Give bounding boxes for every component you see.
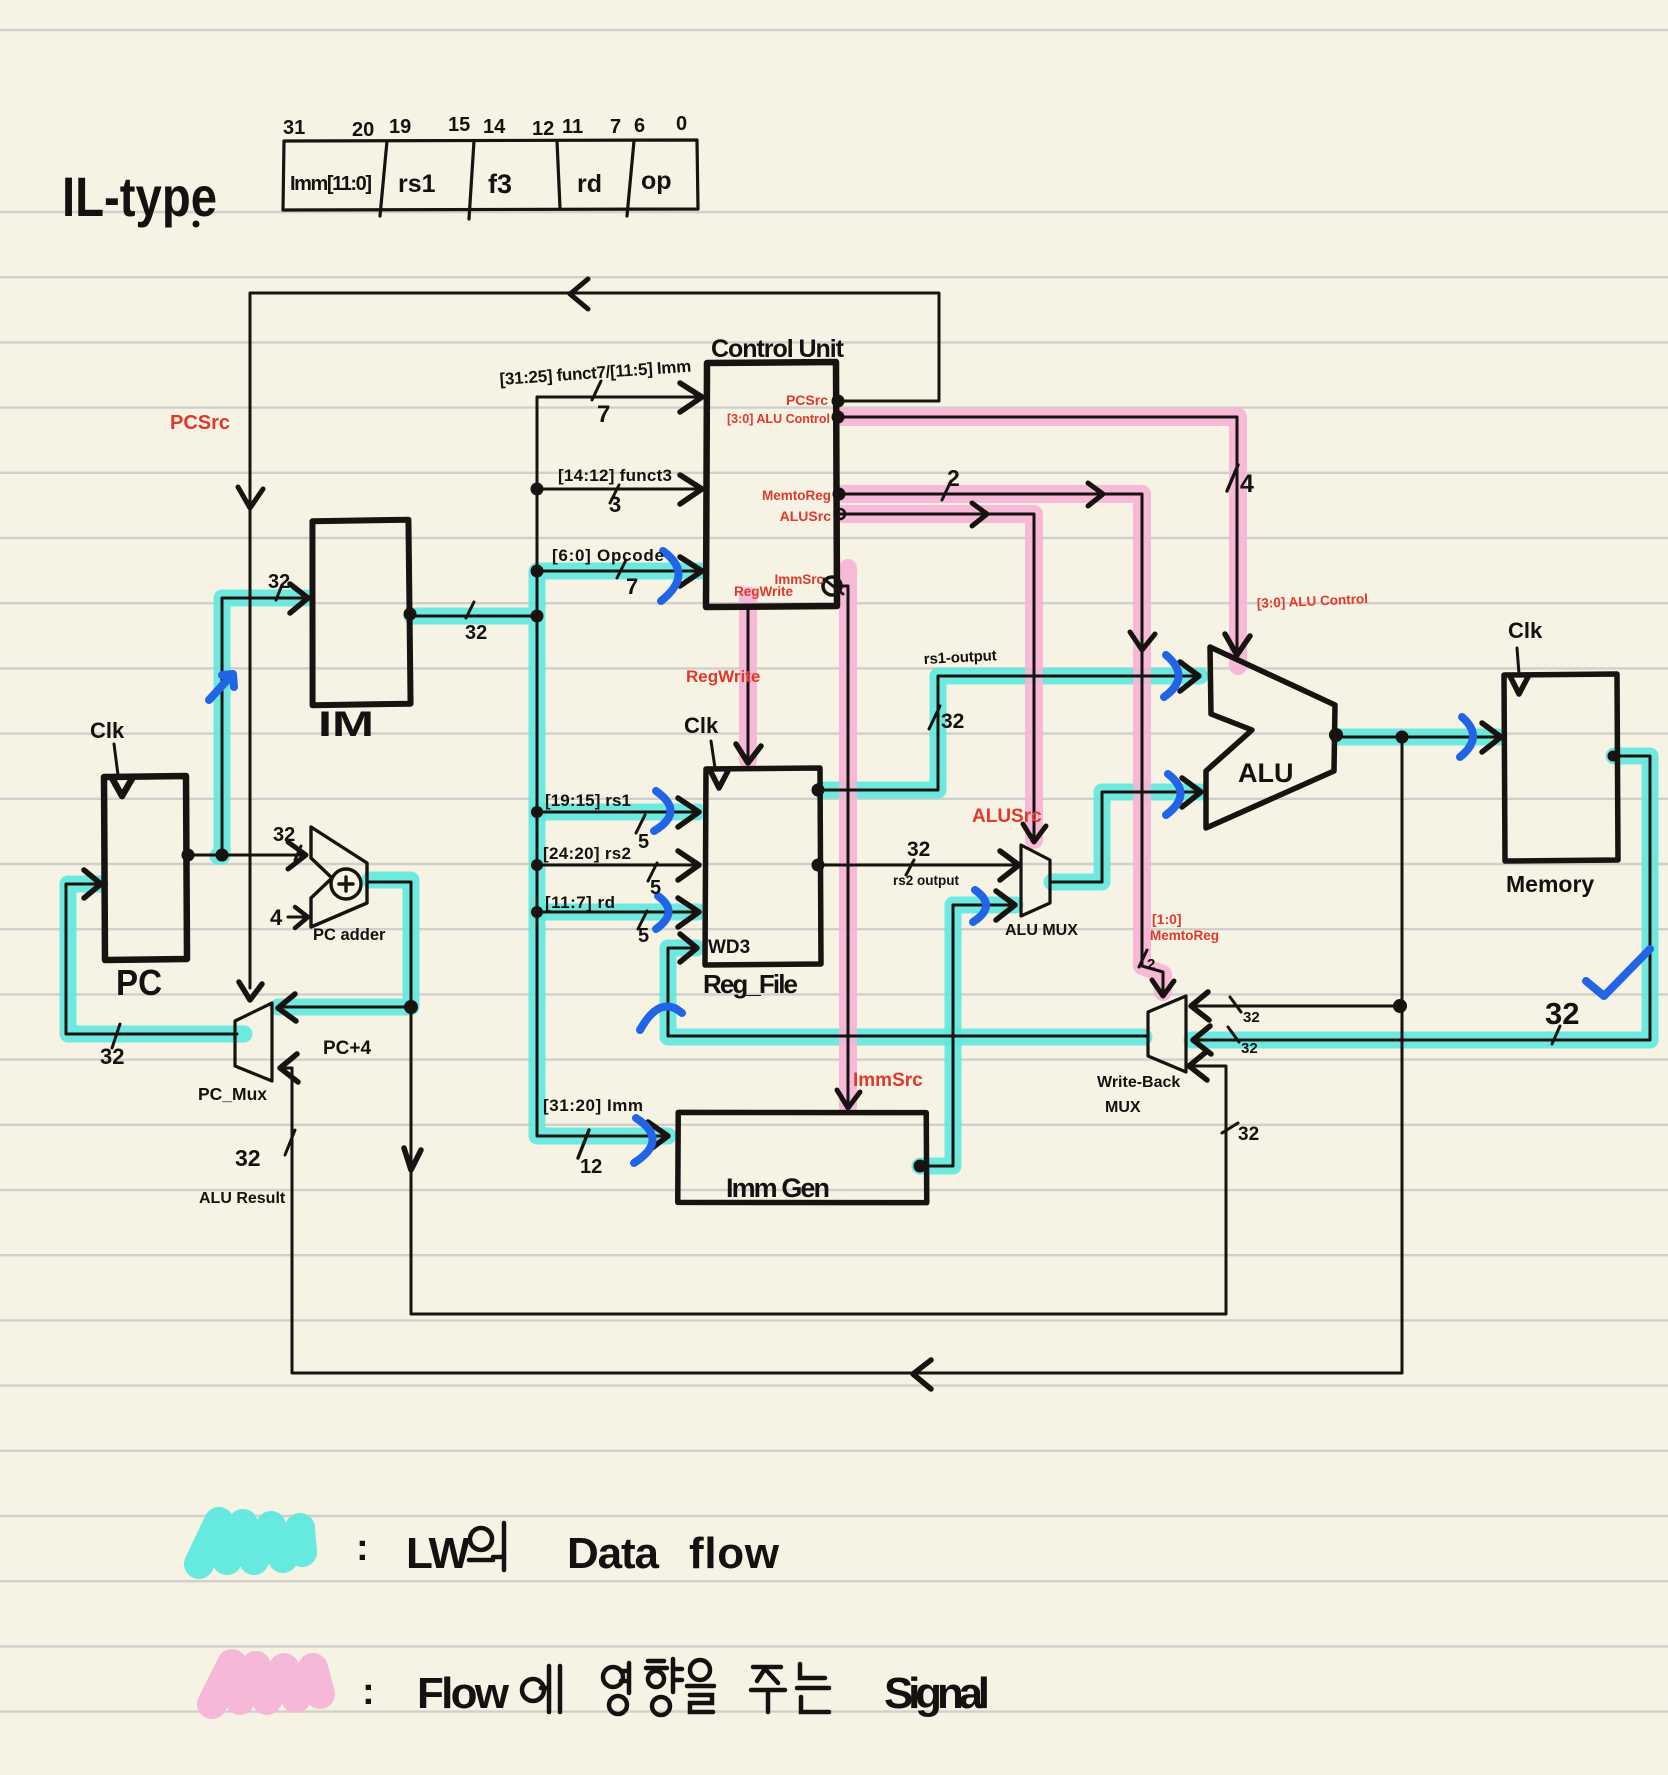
register file Reg_File — [705, 768, 821, 965]
slash 4 on ALU Control wire — [1227, 465, 1238, 491]
svg-text:14: 14 — [483, 116, 506, 138]
wire ALU output to Memory — [1329, 723, 1501, 752]
slash 3 on funct3 wire — [610, 485, 619, 503]
svg-text:6: 6 — [634, 115, 645, 137]
highlight cyan: LW data flow, PC adder PC+4 to PC_Mux — [278, 880, 411, 1007]
svg-text:PC_Mux: PC_Mux — [198, 1084, 267, 1104]
wire PC adder output to PC_Mux PC+4 input — [278, 882, 418, 1021]
svg-text:32: 32 — [1545, 996, 1579, 1031]
highlight cyan: LW data flow, Imm Gen output to ALU MUX lower input — [920, 905, 1015, 1166]
svg-text:LW: LW — [406, 1529, 470, 1578]
svg-text:rd: rd — [577, 170, 602, 198]
svg-text:Clk: Clk — [1508, 618, 1543, 643]
svg-text::: : — [362, 1671, 375, 1713]
svg-text:3: 3 — [609, 492, 621, 517]
svg-text:[6:0] Opcode: [6:0] Opcode — [552, 546, 664, 565]
svg-text:32: 32 — [465, 622, 487, 644]
svg-text:7: 7 — [610, 116, 621, 138]
svg-text:5: 5 — [650, 877, 661, 899]
wire ALUSrc: control unit to ALU_MUX select — [835, 503, 1046, 842]
svg-text:Imm Gen: Imm Gen — [726, 1173, 830, 1203]
wire ALU result loop to PC_Mux lower input — [280, 731, 1409, 1390]
wire ImmSrc: control unit to Imm Gen select — [823, 577, 860, 1108]
svg-text:Control Unit: Control Unit — [711, 335, 845, 363]
highlight cyan: LW data flow, PC output up to IM address input — [218, 598, 306, 856]
wire IM output to instruction bus — [404, 608, 544, 623]
slash 32 on Write-Back MUX middle input — [1228, 1027, 1239, 1042]
svg-text:WD3: WD3 — [708, 937, 750, 958]
svg-text:7: 7 — [597, 401, 610, 428]
highlight cyan: LW data flow, rd field tap to Reg_File — [537, 904, 698, 921]
svg-text:Data: Data — [567, 1529, 660, 1578]
highlight cyan: LW data flow, Memory read data to Write-Back MUX — [1192, 756, 1650, 1040]
svg-text:ALU: ALU — [1238, 758, 1294, 788]
blue chevron on ALU output at Memory — [1460, 717, 1473, 757]
svg-text:32: 32 — [1243, 1009, 1260, 1026]
svg-text:32: 32 — [907, 838, 930, 861]
slash 32 on IM output wire — [466, 602, 474, 618]
svg-text:PCSrc: PCSrc — [170, 412, 230, 434]
svg-text:IM: IM — [318, 705, 374, 744]
wire imm field to Imm Gen — [537, 1122, 668, 1151]
svg-text:5: 5 — [638, 925, 649, 947]
wire PC+4 drop to Write-Back MUX input — [404, 1007, 1226, 1314]
instruction format box IL-type — [283, 140, 698, 219]
svg-text:12: 12 — [580, 1156, 602, 1178]
wire funct3 tap to control unit — [531, 475, 703, 504]
svg-text:11: 11 — [562, 116, 583, 138]
highlight pink: RegWrite signal to Reg_File — [739, 596, 757, 760]
wire MemtoReg: control unit to Write-Back MUX select — [833, 483, 1175, 996]
register PC — [104, 776, 187, 960]
blue arrow on PC to IM riser — [209, 674, 234, 700]
svg-text:ALU Result: ALU Result — [199, 1190, 286, 1207]
wire funct7 tap to control unit — [537, 383, 702, 412]
legend swatch: pink marker scribble — [212, 1664, 320, 1704]
svg-text:ALUSrc: ALUSrc — [780, 508, 832, 524]
wire rs2 output to ALU_MUX upper input — [812, 851, 1020, 880]
svg-text:Signal: Signal — [884, 1669, 990, 1718]
label 32 ALU Result (bottom left) — [285, 1130, 295, 1155]
svg-text:[19:15] rs1: [19:15] rs1 — [545, 791, 631, 810]
wire ALU_MUX output to ALU lower input — [1050, 778, 1201, 882]
wire instruction bus vertical — [536, 397, 539, 1136]
blue chevron on imm wire — [634, 1118, 653, 1163]
svg-text:rs1: rs1 — [398, 170, 436, 198]
svg-text:MUX: MUX — [1105, 1099, 1141, 1116]
clock tick Memory — [1517, 648, 1519, 674]
highlight pink: ImmSrc signal to Imm Gen — [839, 568, 857, 1106]
svg-text:32: 32 — [268, 571, 290, 593]
svg-text:PC+4: PC+4 — [323, 1038, 371, 1059]
slash 5 on rs2 wire — [648, 863, 657, 881]
svg-text:20: 20 — [352, 119, 374, 141]
svg-text:32: 32 — [1238, 1124, 1259, 1145]
svg-text:ALUSrc: ALUSrc — [972, 806, 1042, 827]
wire opcode tap to control unit — [531, 557, 703, 586]
svg-text:Imm[11:0]: Imm[11:0] — [290, 173, 372, 195]
svg-text:[24:20] rs2: [24:20] rs2 — [543, 844, 631, 863]
highlight cyan: LW data flow, PC_Mux output to PC input — [68, 884, 244, 1034]
svg-text:Clk: Clk — [90, 718, 125, 743]
svg-text:[11:7] rd: [11:7] rd — [545, 893, 615, 912]
korean glyph ui — [469, 1523, 504, 1570]
blue chevron on rs1 output at ALU — [1164, 655, 1179, 697]
svg-text:Clk: Clk — [684, 713, 719, 738]
highlight pink: MemtoReg signal to Write-Back MUX — [842, 494, 1163, 992]
wire [3:0] ALU Control: control unit to ALU — [832, 411, 1251, 656]
svg-text:32: 32 — [941, 710, 964, 733]
svg-text:f3: f3 — [488, 169, 512, 199]
svg-text:12: 12 — [532, 118, 554, 140]
slash 12 on imm wire — [578, 1130, 589, 1158]
svg-text:19: 19 — [389, 116, 411, 138]
svg-text:4: 4 — [1240, 470, 1254, 498]
svg-text:RegWrite: RegWrite — [686, 667, 760, 686]
control unit U_ctrl — [706, 362, 837, 607]
svg-text:rs2 output: rs2 output — [893, 873, 960, 888]
wire Imm Gen output to ALU_MUX lower input — [914, 891, 1016, 1173]
blue check mark on Memory output wire — [1586, 949, 1650, 996]
svg-text:Reg_File: Reg_File — [703, 969, 798, 999]
PC adder — [311, 827, 367, 927]
slash 32 on rs1 output riser — [929, 706, 940, 729]
svg-text:op: op — [641, 167, 672, 195]
slash 7 on funct7 wire — [592, 381, 601, 400]
slash 5 on rs1 wire — [636, 815, 645, 833]
immediate generator Imm Gen — [678, 1111, 927, 1203]
svg-text:15: 15 — [448, 114, 470, 136]
wire rd field to Reg_File — [531, 898, 699, 927]
legend swatch: cyan marker scribble — [199, 1522, 302, 1564]
blue chevron on opcode wire — [661, 551, 679, 601]
svg-text:4: 4 — [270, 905, 283, 930]
wire PC output riser to IM — [222, 584, 308, 855]
highlight cyan: LW data flow, IM instruction output bus — [412, 571, 700, 1136]
svg-text:IL-type: IL-type — [62, 165, 217, 228]
korean glyph e — [522, 1666, 560, 1712]
svg-text:[31:20] Imm: [31:20] Imm — [543, 1096, 643, 1115]
svg-text:[1:0]: [1:0] — [1152, 911, 1182, 927]
slash 2 on MemtoReg drop — [1139, 950, 1147, 967]
wire rs2 field to Reg_File — [531, 851, 699, 880]
svg-text::: : — [356, 1527, 369, 1569]
blue chevron on Imm Gen output at ALU_MUX — [973, 890, 986, 922]
slash 32 on PC to IM wire — [276, 585, 282, 600]
mux ALU_MUX — [1021, 845, 1050, 916]
highlight cyan: LW data flow, rs1 output to ALU upper input — [821, 676, 1200, 790]
svg-text:5: 5 — [638, 831, 649, 853]
highlight pink: ALUSrc signal to ALU MUX — [842, 514, 1034, 840]
slash 32 below Write-Back MUX — [1222, 1123, 1238, 1133]
svg-text:31: 31 — [283, 117, 305, 139]
slash 32 on PC_Mux output wire — [112, 1024, 120, 1048]
wire PC_Mux output to PC — [66, 870, 237, 1034]
slash 5 on rd wire — [638, 911, 647, 929]
highlight cyan: LW data flow, ALU result to Memory — [1340, 729, 1498, 746]
svg-text:MemtoReg: MemtoReg — [762, 488, 831, 503]
blue chevron on rd wire — [656, 896, 669, 929]
svg-text:ImmSrc: ImmSrc — [853, 1070, 923, 1091]
svg-text:32: 32 — [235, 1145, 261, 1171]
highlight cyan: LW data flow, ALU MUX output to ALU lower input — [1052, 792, 1200, 882]
wire PCSrc: control unit to PC_Mux via top loop — [238, 279, 939, 1000]
svg-text:PC: PC — [116, 962, 162, 1003]
wire Write-Back MUX output to Reg_File WD3 — [668, 934, 1148, 1036]
svg-text:Memory: Memory — [1506, 871, 1594, 897]
blue chevron on rs1 wire — [654, 791, 671, 831]
svg-text:Write-Back: Write-Back — [1097, 1074, 1180, 1091]
svg-text:PCSrc: PCSrc — [786, 392, 828, 408]
ALU U_alu — [1206, 647, 1335, 828]
mux Write-Back MUX — [1148, 996, 1186, 1072]
svg-text:PC adder: PC adder — [313, 926, 386, 944]
korean glyphs ju neun — [751, 1664, 829, 1712]
wire RegWrite: control unit to Reg_File write enable — [736, 607, 761, 763]
instruction memory IM — [311, 520, 410, 706]
svg-text:2: 2 — [1147, 956, 1155, 973]
svg-text:32: 32 — [273, 824, 295, 846]
blue chevron on ALU_MUX output at ALU — [1166, 774, 1181, 815]
clock tick PC — [114, 744, 118, 775]
data memory Memory — [1504, 674, 1618, 861]
wire Memory read data loop to Write-Back MUX middle input — [1193, 751, 1650, 1055]
svg-text:Flow: Flow — [417, 1669, 510, 1718]
blue arc at Reg_File WD3 corner — [640, 1006, 682, 1030]
slash 32 on Write-Back MUX top input — [1230, 997, 1241, 1012]
svg-text:MemtoReg: MemtoReg — [1150, 928, 1219, 943]
slash 7 on opcode wire — [617, 560, 626, 578]
highlight pink: PCSrc / [3:0] ALU Control signal to ALU — [842, 417, 1238, 666]
highlight cyan: LW data flow, rs1 field tap to Reg_File — [537, 804, 698, 821]
clock tick Reg_File — [711, 741, 715, 768]
svg-text:flow: flow — [689, 1529, 780, 1578]
wire rs1 output to ALU upper input — [812, 662, 1200, 797]
svg-text:32: 32 — [100, 1044, 124, 1069]
svg-text:0: 0 — [676, 113, 687, 135]
wire rs1 field to Reg_File — [531, 798, 699, 827]
svg-text:RegWrite: RegWrite — [734, 584, 794, 599]
wire PC output to PC adder — [182, 842, 307, 869]
korean glyphs yeong hyang eul — [603, 1659, 714, 1715]
svg-text:[3:0] ALU Control: [3:0] ALU Control — [727, 412, 830, 426]
wire ALU result to Write-Back MUX top input — [1191, 992, 1407, 1020]
svg-text:32: 32 — [1241, 1040, 1258, 1057]
blue ink marks — [209, 551, 1650, 1163]
wire constant 4 into PC adder — [288, 907, 308, 928]
svg-text:ALU MUX: ALU MUX — [1005, 922, 1078, 939]
svg-text:7: 7 — [626, 574, 638, 599]
mux PC_Mux — [235, 1003, 272, 1081]
highlight cyan: LW data flow, Write-Back MUX output to Reg_File WD3 — [668, 948, 1144, 1037]
svg-text:[14:12] funct3: [14:12] funct3 — [558, 466, 672, 485]
